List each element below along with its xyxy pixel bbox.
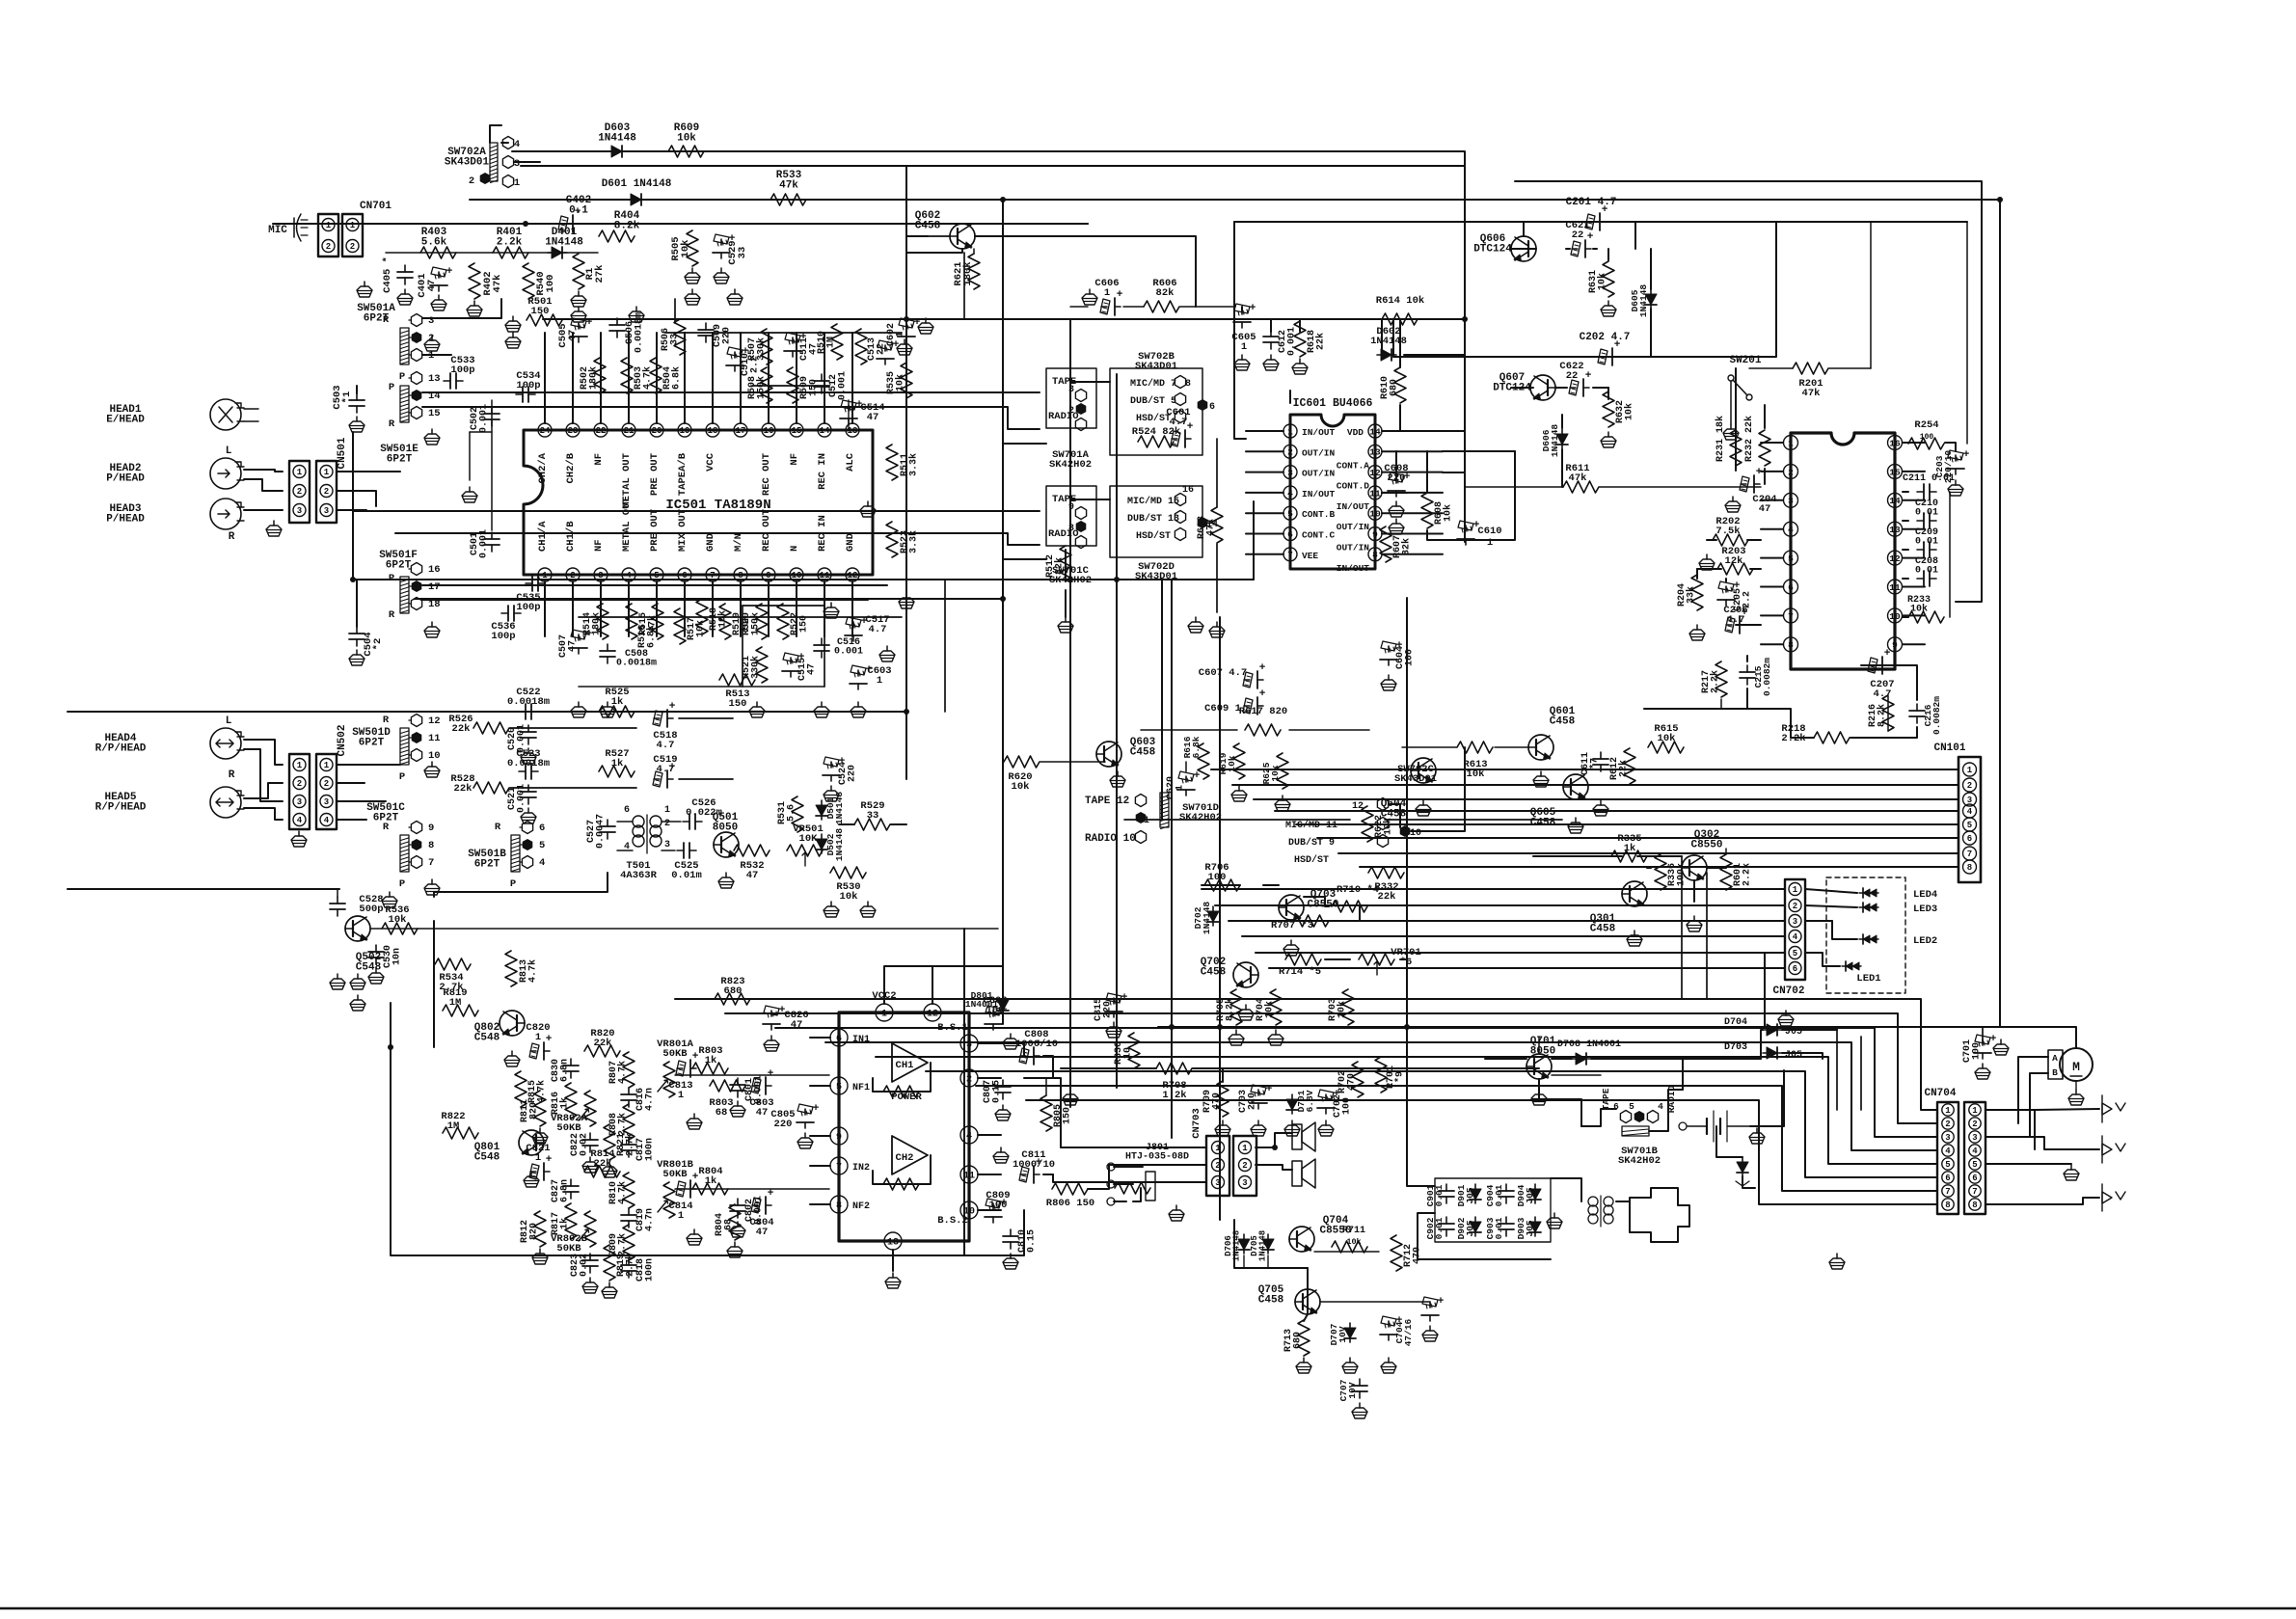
resistor R830 bbox=[1114, 1033, 1140, 1068]
svg-text:5: 5 bbox=[1967, 821, 1972, 830]
svg-text:CN701: CN701 bbox=[360, 201, 392, 212]
svg-text:13: 13 bbox=[1369, 447, 1381, 458]
resistor R617 bbox=[1239, 706, 1287, 736]
svg-text:0.0047: 0.0047 bbox=[596, 814, 607, 849]
capacitor C536 bbox=[491, 606, 521, 642]
speaker SP2 bbox=[1292, 1159, 1315, 1188]
svg-text:47k: 47k bbox=[1802, 388, 1821, 399]
svg-text:10: 10 bbox=[428, 750, 441, 762]
transformer T501 bbox=[620, 805, 670, 881]
svg-text:+: + bbox=[669, 701, 676, 713]
svg-text:R: R bbox=[383, 715, 390, 726]
IC501 pin 4 bbox=[621, 497, 635, 581]
svg-text:1N4148: 1N4148 bbox=[834, 828, 845, 862]
svg-text:5.6: 5.6 bbox=[787, 804, 797, 822]
wire IC501 pin 18 stub bbox=[712, 333, 714, 423]
capacitor C801 C801 bbox=[730, 1075, 765, 1117]
svg-text:100: 100 bbox=[1405, 649, 1416, 666]
resistor R332 bbox=[1368, 867, 1404, 903]
svg-text:820: 820 bbox=[529, 1102, 540, 1120]
wire j801 gnd bbox=[1133, 1188, 1141, 1201]
IC501 label bbox=[665, 498, 770, 513]
svg-text:2: 2 bbox=[1972, 1120, 1977, 1129]
svg-text:10k: 10k bbox=[1227, 755, 1237, 771]
wire q603 row bbox=[1040, 761, 1105, 763]
svg-text:1: 1 bbox=[1175, 785, 1186, 791]
ground g14 bbox=[1389, 519, 1404, 534]
svg-text:10V: 10V bbox=[1347, 1382, 1358, 1398]
wire head4 to CN502 bbox=[244, 740, 283, 820]
resistor R503 bbox=[621, 358, 654, 393]
resistor R516 bbox=[637, 604, 663, 648]
svg-text:4: 4 bbox=[539, 857, 545, 869]
resistor R403 bbox=[420, 227, 456, 258]
ground g33 bbox=[1829, 1254, 1845, 1269]
svg-text:2: 2 bbox=[1945, 1120, 1950, 1129]
svg-text:3: 3 bbox=[1287, 468, 1293, 478]
power-amp pin 13 bbox=[884, 1232, 902, 1250]
svg-text:15: 15 bbox=[428, 408, 441, 419]
svg-text:2.2k: 2.2k bbox=[1710, 670, 1721, 693]
svg-text:22: 22 bbox=[1566, 370, 1579, 382]
ground amp2 bbox=[687, 1229, 702, 1245]
svg-text:50KB: 50KB bbox=[662, 1169, 688, 1180]
diode D902 bbox=[1456, 1217, 1481, 1239]
resistor R532 bbox=[734, 845, 770, 881]
svg-text:3: 3 bbox=[1068, 385, 1074, 395]
wire vr701 row bbox=[1253, 906, 1407, 959]
svg-text:0.0018m: 0.0018m bbox=[616, 659, 657, 669]
resistor R705 bbox=[1216, 989, 1244, 1045]
svg-text:0.01m: 0.01m bbox=[671, 870, 702, 881]
wire to CN704 pin 1 bbox=[675, 999, 1937, 1110]
wire to CN101 pin 5 bbox=[1296, 823, 1958, 825]
svg-text:33k: 33k bbox=[1686, 586, 1697, 604]
transistor Q302 bbox=[1682, 829, 1723, 880]
svg-text:5.6k: 5.6k bbox=[421, 236, 447, 248]
svg-text:C610: C610 bbox=[1477, 526, 1501, 537]
ground q302 bbox=[1687, 916, 1702, 931]
svg-text:2: 2 bbox=[1788, 467, 1794, 477]
capacitor C815 bbox=[1094, 992, 1128, 1038]
svg-text:7.5k: 7.5k bbox=[1715, 526, 1740, 537]
resistor R804b bbox=[715, 1204, 743, 1257]
svg-text:10V: 10V bbox=[1337, 1326, 1348, 1342]
svg-text:R: R bbox=[495, 822, 501, 833]
svg-text:4: 4 bbox=[297, 816, 303, 825]
capacitor C830 C830 bbox=[551, 1059, 579, 1082]
ground ic501 right bbox=[860, 501, 876, 517]
svg-text:C548: C548 bbox=[356, 962, 382, 974]
wire IC201 pin 3 stub bbox=[1761, 499, 1783, 501]
capacitor C704 bbox=[1380, 1315, 1414, 1373]
diode D704 bbox=[1724, 1017, 1802, 1038]
svg-text:IN2: IN2 bbox=[852, 1163, 870, 1174]
resistor R804 R804 bbox=[692, 1166, 728, 1195]
svg-text:2: 2 bbox=[1793, 902, 1797, 911]
power-amp NF loop 1 bbox=[873, 1063, 931, 1097]
wire IC201 pin 15 stub bbox=[1903, 471, 1925, 472]
wire IC601 pin 5 stub bbox=[1246, 512, 1283, 514]
svg-text:HSD/ST: HSD/ST bbox=[1136, 530, 1171, 542]
transistor Q601 bbox=[1528, 706, 1576, 760]
switch SW501A bbox=[357, 303, 434, 383]
svg-text:6.8k: 6.8k bbox=[646, 625, 658, 648]
svg-text:4: 4 bbox=[1945, 1147, 1951, 1156]
svg-text:+: + bbox=[692, 1172, 699, 1183]
svg-text:OUT/IN: OUT/IN bbox=[1337, 543, 1370, 553]
svg-text:+: + bbox=[1194, 770, 1201, 782]
wire left col 2 bbox=[415, 598, 1002, 600]
svg-text:7: 7 bbox=[710, 571, 715, 580]
svg-text:1N4148: 1N4148 bbox=[834, 792, 845, 825]
wire r708 feed bbox=[1061, 1068, 1539, 1082]
svg-text:ALC: ALC bbox=[845, 452, 856, 472]
resistor R335 bbox=[1611, 833, 1647, 862]
IC501 pin 2 bbox=[565, 521, 580, 581]
svg-text:7: 7 bbox=[1788, 611, 1794, 622]
svg-text:R: R bbox=[389, 609, 395, 621]
wire jack1 feed bbox=[1986, 1109, 2099, 1110]
svg-text:REC IN: REC IN bbox=[817, 453, 828, 490]
resistor R1 27k bbox=[571, 254, 606, 307]
capacitor C827 C827 bbox=[551, 1179, 579, 1202]
svg-text:8: 8 bbox=[836, 1201, 842, 1212]
wire IC201 pin 1 stub bbox=[1761, 442, 1783, 444]
resistor R707 bbox=[1271, 915, 1329, 931]
ground g23 bbox=[1283, 940, 1299, 956]
wire c202 left bbox=[1392, 319, 1394, 357]
svg-text:10k: 10k bbox=[1658, 733, 1676, 744]
svg-text:LED4: LED4 bbox=[1913, 889, 1937, 901]
svg-text:1: 1 bbox=[535, 1152, 541, 1164]
svg-text:P/HEAD: P/HEAD bbox=[106, 472, 145, 484]
svg-text:17: 17 bbox=[736, 426, 746, 436]
svg-text:1: 1 bbox=[324, 468, 330, 477]
svg-text:P: P bbox=[389, 382, 394, 393]
svg-text:HSD/ST: HSD/ST bbox=[1294, 854, 1329, 866]
svg-text:82k: 82k bbox=[1054, 557, 1066, 575]
wire to CN702 pin 4 bbox=[1242, 935, 1785, 937]
svg-text:33: 33 bbox=[867, 810, 879, 822]
svg-text:12k: 12k bbox=[1725, 555, 1743, 567]
svg-text:220: 220 bbox=[1248, 1093, 1258, 1110]
svg-text:CN702: CN702 bbox=[1772, 985, 1804, 997]
wire IC501 pin 7 stub bbox=[712, 581, 714, 636]
svg-text:500p: 500p bbox=[359, 904, 383, 915]
svg-text:4.7k: 4.7k bbox=[536, 1080, 548, 1103]
resistor R505 bbox=[670, 230, 700, 283]
svg-text:14: 14 bbox=[1889, 496, 1901, 506]
capacitor C901 bbox=[1425, 1184, 1454, 1206]
resistor R519 bbox=[719, 604, 752, 639]
svg-text:3: 3 bbox=[664, 840, 670, 850]
svg-text:22: 22 bbox=[596, 426, 607, 436]
svg-text:0.01: 0.01 bbox=[1915, 566, 1938, 577]
capacitor C702 bbox=[1317, 1089, 1353, 1136]
svg-text:J05: J05 bbox=[1465, 1187, 1475, 1203]
wire IC201 pin 10 stub bbox=[1903, 614, 1925, 616]
IC501 pin 21 bbox=[621, 423, 635, 508]
svg-text:11: 11 bbox=[1889, 582, 1901, 593]
wire IC501 pin 10 stub bbox=[796, 581, 797, 636]
svg-text:LED1: LED1 bbox=[1856, 973, 1880, 985]
capacitor C809 bbox=[985, 1190, 1011, 1223]
wire amp pin 12 stub bbox=[932, 982, 933, 1004]
capacitor C607 bbox=[1199, 662, 1266, 688]
svg-text:CH1/A: CH1/A bbox=[537, 521, 549, 552]
svg-text:8.2k: 8.2k bbox=[1877, 704, 1888, 727]
wire IC501 pin 22 stub bbox=[600, 333, 602, 423]
svg-text:MIX OUT: MIX OUT bbox=[677, 509, 689, 552]
wire amp out to cn703 bbox=[1001, 1043, 1206, 1189]
svg-text:VEE: VEE bbox=[1302, 551, 1318, 561]
svg-text:8: 8 bbox=[1967, 863, 1972, 873]
diode D707 bbox=[1329, 1323, 1358, 1373]
capacitor C701 bbox=[1962, 1027, 1997, 1079]
svg-text:1N4148: 1N4148 bbox=[598, 132, 636, 144]
svg-text:5: 5 bbox=[836, 1083, 842, 1093]
svg-text:22k: 22k bbox=[1315, 333, 1327, 350]
svg-text:R: R bbox=[229, 769, 235, 781]
IC601 pin 10 label bbox=[1337, 522, 1370, 532]
wire to CN101 pin 8 bbox=[1360, 866, 1958, 868]
svg-text:47: 47 bbox=[426, 280, 438, 292]
svg-text:CN704: CN704 bbox=[1924, 1088, 1956, 1099]
resistor R509 bbox=[787, 367, 820, 403]
svg-text:7: 7 bbox=[1945, 1187, 1950, 1197]
wire IC501 pin 1 stub bbox=[544, 581, 546, 636]
ground mic area bbox=[357, 282, 372, 297]
resistor R528 bbox=[450, 773, 509, 795]
svg-text:7: 7 bbox=[836, 1163, 842, 1174]
ground g15 bbox=[1058, 617, 1073, 633]
resistor R510 bbox=[817, 324, 843, 360]
svg-text:A: A bbox=[2052, 1053, 2058, 1064]
svg-text:TAPE: TAPE bbox=[1601, 1088, 1611, 1110]
svg-text:+: + bbox=[1187, 421, 1194, 433]
svg-text:P/HEAD: P/HEAD bbox=[106, 514, 145, 526]
svg-text:+: + bbox=[1585, 370, 1592, 382]
resistor R336 bbox=[1627, 854, 1688, 946]
capacitor C620 bbox=[1166, 762, 1201, 799]
svg-text:C458: C458 bbox=[1258, 1295, 1284, 1307]
wire IC501 pin 17 stub bbox=[740, 333, 742, 423]
svg-text:R617 820: R617 820 bbox=[1239, 706, 1287, 717]
capacitor C806 bbox=[983, 995, 1018, 1049]
svg-text:47: 47 bbox=[1759, 503, 1771, 515]
svg-text:6: 6 bbox=[1972, 1174, 1977, 1183]
svg-text:1N4148: 1N4148 bbox=[545, 236, 583, 248]
resistor R615 bbox=[1648, 723, 1684, 753]
node q1 bbox=[904, 709, 909, 715]
resistor R701 bbox=[1375, 1057, 1406, 1093]
wire jack2 feed bbox=[1986, 1137, 2099, 1149]
wire t501 area bbox=[434, 822, 681, 892]
svg-text:4.7k: 4.7k bbox=[527, 959, 539, 983]
LED LED3 bbox=[1859, 903, 1937, 915]
svg-text:R806 150: R806 150 bbox=[1046, 1198, 1094, 1209]
svg-text:2: 2 bbox=[966, 1075, 972, 1086]
resistor R703 bbox=[1328, 989, 1354, 1025]
svg-text:DUB/ST 5: DUB/ST 5 bbox=[1130, 395, 1176, 407]
capacitor C507 bbox=[558, 629, 593, 658]
capacitor C205 bbox=[1717, 580, 1753, 611]
svg-text:6: 6 bbox=[624, 805, 630, 816]
pot VR701 bbox=[1359, 947, 1421, 975]
svg-text:D704: D704 bbox=[1724, 1017, 1747, 1028]
resistor R508 bbox=[747, 367, 772, 403]
svg-text:100: 100 bbox=[1920, 433, 1934, 442]
transistor Q604 bbox=[1381, 758, 1436, 821]
capacitor C535 bbox=[516, 576, 545, 613]
IC601 pin 11 label bbox=[1337, 501, 1370, 512]
switch SW702B block bbox=[1110, 351, 1215, 455]
motor M1 bbox=[2060, 1048, 2093, 1105]
node a1 bbox=[388, 1044, 393, 1050]
resistor R518 bbox=[696, 599, 729, 634]
resistor R806 bbox=[1046, 1183, 1094, 1209]
svg-text:IN/OUT: IN/OUT bbox=[1337, 563, 1370, 574]
svg-text:0.15: 0.15 bbox=[992, 1080, 1003, 1103]
capacitor C707 bbox=[1338, 1379, 1367, 1418]
svg-text:*9: *9 bbox=[1394, 1071, 1406, 1083]
wire IC201 pin 8 stub bbox=[1761, 643, 1783, 645]
svg-text:22k: 22k bbox=[454, 783, 473, 795]
wire q602 row bbox=[906, 235, 928, 237]
svg-text:8.2k: 8.2k bbox=[1225, 998, 1236, 1021]
capacitor C506 bbox=[609, 312, 645, 353]
IC501 pin 17 bbox=[734, 423, 747, 437]
resistor R802w bbox=[675, 1188, 829, 1190]
svg-text:100: 100 bbox=[1208, 872, 1227, 883]
resistor R254 bbox=[1908, 419, 1944, 449]
svg-text:5: 5 bbox=[654, 571, 659, 580]
wire to CN101 pin 1 bbox=[1211, 769, 1958, 770]
svg-text:L: L bbox=[226, 445, 232, 457]
svg-text:8: 8 bbox=[1788, 640, 1794, 651]
connector CN501 box A bbox=[289, 461, 310, 523]
wire IC501 pin 11 stub bbox=[824, 581, 825, 636]
ground q502 b bbox=[350, 974, 365, 989]
IC601 label bbox=[1293, 397, 1373, 410]
svg-text:2: 2 bbox=[428, 333, 434, 344]
ground g29 bbox=[1531, 1090, 1547, 1105]
wire IC601 pin 4 stub bbox=[1246, 492, 1283, 494]
svg-text:0.022m: 0.022m bbox=[686, 807, 722, 819]
resistor R709 bbox=[1202, 1081, 1230, 1136]
wire amp pin 11 stub bbox=[978, 1174, 1001, 1175]
svg-text:10k: 10k bbox=[1270, 765, 1281, 781]
svg-text:0.01: 0.01 bbox=[1494, 1217, 1504, 1239]
resistor R525 bbox=[599, 687, 635, 717]
resistor R609 bbox=[668, 122, 704, 157]
power-amp CH1 amp bbox=[892, 1043, 928, 1082]
wire mid h 601 bbox=[1117, 501, 1254, 580]
svg-text:R: R bbox=[383, 314, 390, 326]
svg-text:21: 21 bbox=[624, 426, 635, 436]
diode D702 bbox=[1193, 902, 1219, 935]
IC501 pin 23 bbox=[565, 423, 580, 484]
svg-text:4.7k: 4.7k bbox=[642, 366, 654, 390]
resistor R216 bbox=[1868, 695, 1894, 731]
svg-text:D703: D703 bbox=[1724, 1042, 1747, 1053]
svg-text:3.3k: 3.3k bbox=[908, 453, 920, 476]
head HEAD5 labels bbox=[95, 792, 147, 814]
wire IC201 pin 14 stub bbox=[1903, 499, 1925, 501]
jack J801 bbox=[1107, 1143, 1189, 1205]
diode D606 bbox=[1541, 424, 1568, 458]
ground g31 bbox=[424, 336, 440, 351]
wire vertical D bbox=[1116, 374, 1118, 1088]
wire IC501 pin 13 stub bbox=[851, 333, 853, 423]
svg-text:+: + bbox=[813, 1103, 820, 1115]
wire to CN704 pin 2 bbox=[725, 1013, 1937, 1123]
svg-text:7: 7 bbox=[1287, 550, 1293, 560]
capacitor C517 bbox=[845, 614, 890, 641]
ground g8 bbox=[600, 702, 615, 717]
wire to CN704 pin 4 bbox=[825, 1042, 1937, 1150]
resistor R606 bbox=[1144, 278, 1179, 312]
svg-text:33: 33 bbox=[737, 247, 748, 259]
capacitor C514 bbox=[840, 399, 885, 424]
capacitor C519 bbox=[653, 754, 678, 788]
svg-text:16: 16 bbox=[764, 426, 774, 436]
IC501 pin 15 bbox=[789, 423, 803, 466]
svg-text:1: 1 bbox=[324, 761, 330, 770]
svg-text:SK42H02: SK42H02 bbox=[1179, 812, 1222, 823]
wire IC201 pin 5 stub bbox=[1761, 557, 1783, 559]
capacitor C609 bbox=[1204, 688, 1266, 715]
svg-text:1N4148: 1N4148 bbox=[1550, 424, 1560, 458]
ground g25 bbox=[350, 995, 365, 1011]
capacitor C523 bbox=[507, 748, 550, 779]
svg-text:24: 24 bbox=[540, 426, 551, 436]
svg-text:MIC: MIC bbox=[268, 225, 287, 236]
power-amp pin 4 bbox=[960, 1126, 978, 1144]
svg-text:22: 22 bbox=[1572, 229, 1584, 241]
svg-text:33: 33 bbox=[670, 334, 681, 345]
IC501 pin 16 bbox=[761, 423, 775, 496]
resistor R526 bbox=[448, 714, 509, 735]
svg-text:3: 3 bbox=[1242, 1178, 1247, 1188]
IC501 pin 6 bbox=[677, 509, 691, 581]
svg-text:GND: GND bbox=[705, 533, 716, 552]
capacitor C814 C814 bbox=[668, 1172, 698, 1222]
power-amp pin 1 bbox=[876, 1004, 893, 1021]
wire IC601 pin 11 stub bbox=[1382, 492, 1443, 494]
capacitor C502 bbox=[470, 404, 500, 433]
IC501 pin 13 bbox=[845, 423, 859, 472]
svg-text:5: 5 bbox=[1945, 1160, 1950, 1170]
motor terminal box bbox=[2048, 1050, 2063, 1079]
diode D708 bbox=[1557, 1039, 1621, 1065]
transistor Q704 bbox=[1289, 1215, 1352, 1252]
svg-text:220: 220 bbox=[848, 765, 858, 782]
svg-text:*7: *7 bbox=[1589, 758, 1601, 769]
svg-text:SK42H02: SK42H02 bbox=[1618, 1155, 1661, 1167]
resistor R601 bbox=[1720, 849, 1753, 890]
ground g30 bbox=[1063, 1090, 1078, 1105]
ground amp4 bbox=[993, 1147, 1009, 1163]
ground g32 bbox=[1993, 1039, 2009, 1055]
wire gnd feed bbox=[1986, 1163, 2071, 1165]
svg-text:C458: C458 bbox=[915, 220, 941, 231]
svg-text:+: + bbox=[546, 1154, 553, 1166]
resistor R816 R816 bbox=[551, 1083, 577, 1119]
wire jack3 feed bbox=[1986, 1198, 2099, 1204]
svg-text:4.7: 4.7 bbox=[1170, 417, 1188, 428]
